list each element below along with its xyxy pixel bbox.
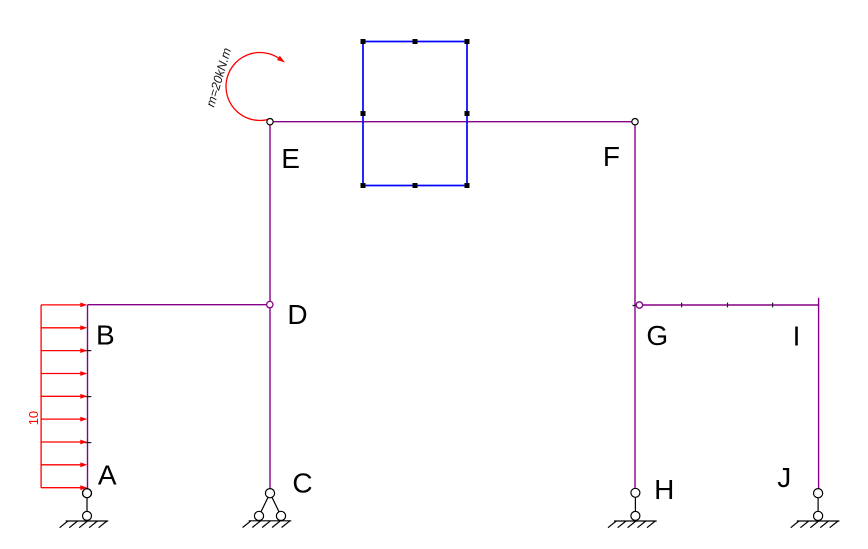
label C xyxy=(292,468,312,499)
label H xyxy=(654,474,674,505)
label A xyxy=(98,460,117,491)
member IJ xyxy=(818,298,820,489)
label E xyxy=(281,143,300,174)
member FGH xyxy=(634,122,636,488)
support C xyxy=(243,489,292,528)
svg-text:C: C xyxy=(292,468,312,499)
hinge node G xyxy=(636,302,642,308)
support H xyxy=(608,488,657,527)
svg-text:B: B xyxy=(96,320,115,351)
moment label m=20kN.m xyxy=(203,46,234,108)
member DC xyxy=(269,305,271,489)
label G xyxy=(646,320,668,351)
svg-text:F: F xyxy=(603,141,620,172)
svg-text:10: 10 xyxy=(26,411,41,425)
svg-text:E: E xyxy=(281,143,300,174)
member ED xyxy=(269,122,271,305)
label J xyxy=(777,462,791,493)
load value label 10 xyxy=(26,411,41,425)
distributed load arrowheads xyxy=(80,303,87,491)
svg-text:D: D xyxy=(287,299,307,330)
svg-text:H: H xyxy=(654,474,674,505)
moment arrowhead xyxy=(277,56,285,63)
member GI xyxy=(643,304,819,306)
member EF xyxy=(270,121,635,123)
svg-text:A: A xyxy=(98,460,117,491)
selection box xyxy=(363,42,467,186)
svg-text:I: I xyxy=(793,320,801,351)
member GI quarter ticks xyxy=(682,303,773,308)
svg-text:G: G xyxy=(646,320,668,351)
member GH end tick at G xyxy=(633,305,639,307)
member BD xyxy=(88,304,271,306)
label I xyxy=(793,320,801,351)
label B xyxy=(96,320,115,351)
member AB quarter ticks xyxy=(85,351,92,443)
node A xyxy=(83,489,92,498)
hinge node D xyxy=(267,301,273,307)
support J xyxy=(791,489,840,528)
distributed load lines xyxy=(41,305,84,488)
moment arc xyxy=(226,52,280,120)
node F xyxy=(632,119,638,125)
label D xyxy=(287,299,307,330)
support A xyxy=(60,489,109,528)
selection handles xyxy=(361,39,470,188)
label F xyxy=(603,141,620,172)
node E xyxy=(267,119,273,125)
member AB xyxy=(87,305,89,489)
svg-text:J: J xyxy=(777,462,791,493)
svg-text:m=20kN.m: m=20kN.m xyxy=(203,46,234,108)
